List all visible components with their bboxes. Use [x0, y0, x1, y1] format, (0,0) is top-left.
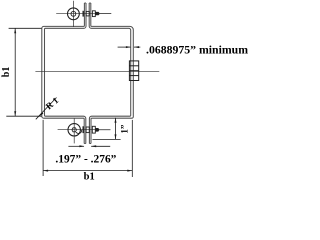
- centerline bottom bolt vertical: [73, 118, 75, 143]
- svg-text:1”: 1”: [120, 124, 130, 134]
- svg-text:b1: b1: [84, 171, 95, 182]
- dimension: left b1 line: [14, 28, 16, 116]
- bolt tip bottom: [96, 128, 100, 132]
- dimension: bottom b1 line: [43, 170, 132, 172]
- spacer bottom: [86, 127, 89, 133]
- centerline side nut horizontal: [35, 70, 159, 72]
- dimension: left b1 extension top: [9, 27, 42, 29]
- nut top: [92, 11, 95, 17]
- centerline top bolt horizontal: [56, 13, 111, 15]
- wire band left-top segment outer: [42, 3, 85, 144]
- band end caps: [84, 3, 91, 144]
- washer top: [83, 11, 84, 17]
- lock washer swirl: [76, 130, 82, 134]
- wire band left-top segment inner: [45, 3, 87, 144]
- dimension: 1 inch extension: [93, 138, 121, 140]
- leader R1: [36, 98, 57, 120]
- dimension: thickness arrows: [118, 46, 131, 48]
- svg-text:.0688975” minimum: .0688975” minimum: [146, 44, 248, 57]
- svg-text:.197” - .276”: .197” - .276”: [55, 154, 116, 166]
- bolt tip top: [95, 12, 100, 15]
- spacer top: [86, 11, 89, 16]
- wire band right segment outer: [91, 3, 134, 144]
- nut bottom: [92, 126, 95, 133]
- dimension: flange gap arrows: [68, 145, 84, 147]
- wire band right segment inner: [89, 3, 131, 144]
- bolt head circle top B1: [68, 8, 80, 20]
- centerline bottom bolt horizontal: [58, 129, 111, 131]
- centerline top bolt vertical: [72, 1, 74, 27]
- svg-text:b1: b1: [1, 67, 12, 78]
- bolt head circle bottom B2: [68, 124, 80, 136]
- washer bottom: [83, 126, 84, 133]
- dimension: bottom b1 extension right: [131, 120, 133, 177]
- dimension: 1 inch line: [115, 118, 117, 140]
- clamp band outer contour: [42, 3, 134, 144]
- side nut N1: [129, 61, 138, 81]
- dimension: left b1 extension bottom: [6, 115, 41, 117]
- hex inner bottom: [72, 128, 77, 132]
- dimension: bottom b1 extension left: [42, 120, 44, 176]
